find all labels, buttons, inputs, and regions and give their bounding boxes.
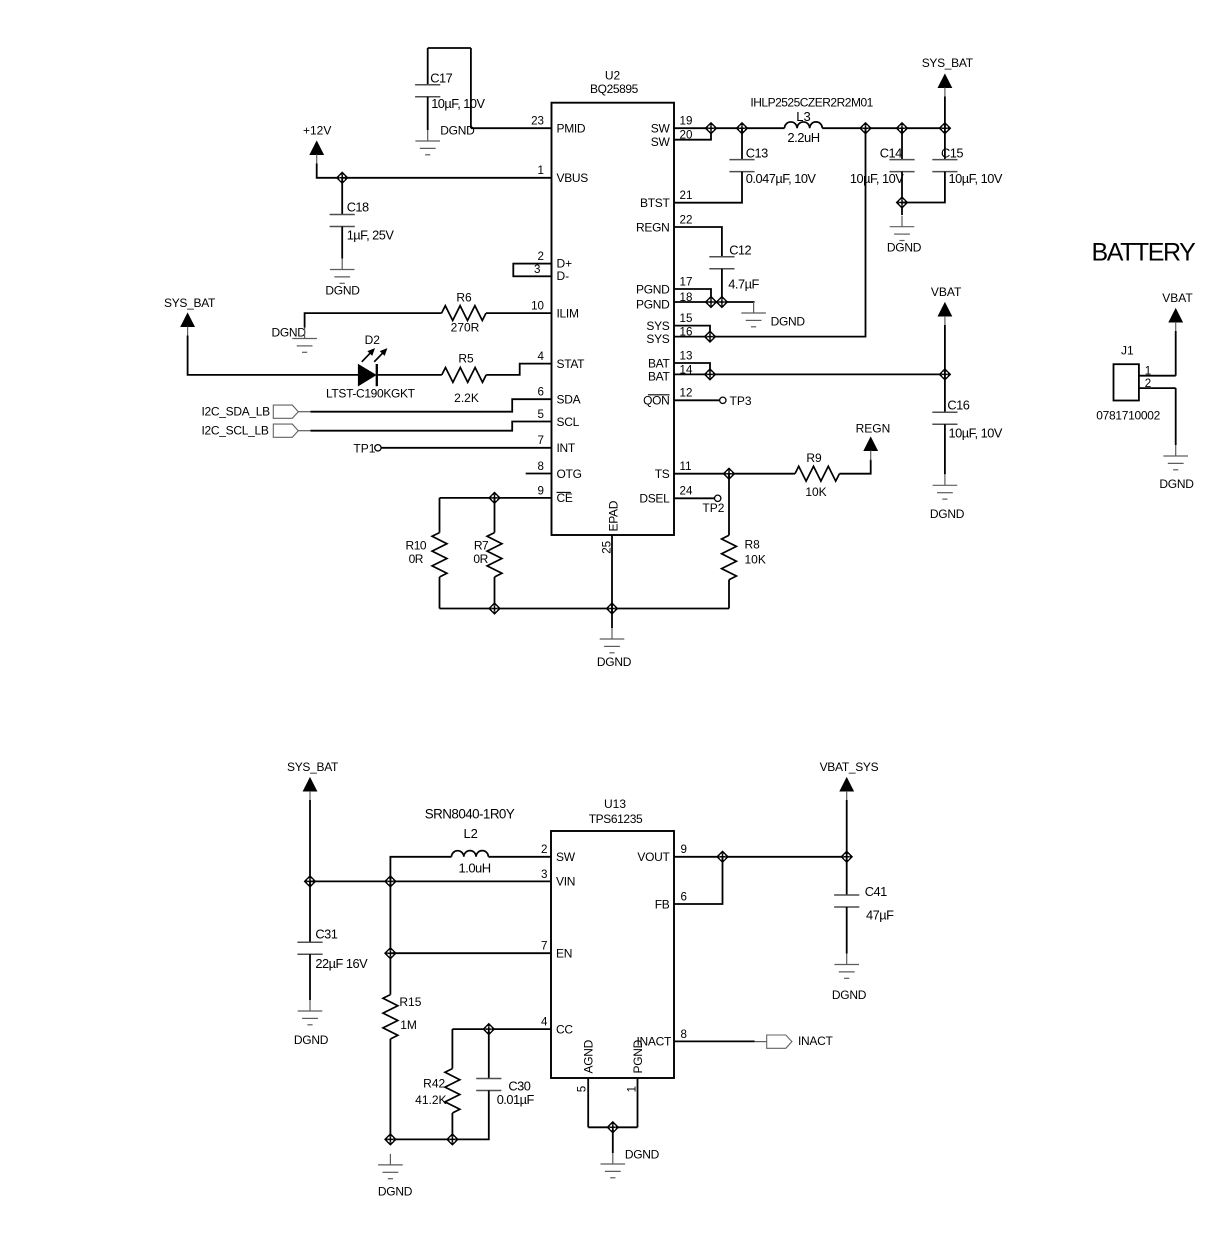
op-amp U2 charger IC body BQ25895 bbox=[552, 103, 675, 535]
svg-text:DGND: DGND bbox=[771, 315, 806, 329]
ground DGND under C18 bbox=[330, 259, 355, 284]
svg-text:23: 23 bbox=[531, 115, 544, 128]
svg-text:R6: R6 bbox=[456, 290, 472, 304]
svg-text:D-: D- bbox=[557, 269, 570, 283]
svg-text:0R: 0R bbox=[473, 552, 488, 566]
wire PMID net to pin 23 bbox=[471, 127, 552, 129]
svg-text:+12V: +12V bbox=[303, 123, 331, 137]
wire I2C_SDA_LB to SDA pin 6 bbox=[311, 399, 552, 412]
wire SW pin 20 jog bbox=[674, 128, 711, 140]
wire VOUT pin 9 net bbox=[674, 856, 847, 858]
svg-text:13: 13 bbox=[680, 349, 693, 362]
svg-text:CC: CC bbox=[556, 1022, 573, 1036]
svg-text:C30: C30 bbox=[508, 1078, 530, 1093]
svg-text:2: 2 bbox=[538, 250, 544, 263]
svg-text:1: 1 bbox=[1145, 365, 1151, 378]
svg-text:22: 22 bbox=[680, 213, 693, 226]
junction FB node bbox=[717, 851, 729, 863]
wire C13 to BTST pin 21 bbox=[674, 172, 742, 203]
ground DGND under C31 bbox=[298, 1000, 323, 1025]
svg-text:DSEL: DSEL bbox=[639, 492, 670, 506]
wire R42 bottom lead bbox=[451, 1113, 453, 1139]
ground DGND at PGND bbox=[741, 302, 766, 327]
svg-text:9: 9 bbox=[681, 843, 687, 856]
power arrow +12V bbox=[310, 142, 323, 155]
wire REGN pin 22 to C12 bbox=[674, 227, 722, 257]
svg-text:0.01µF: 0.01µF bbox=[497, 1092, 535, 1107]
svg-text:L2: L2 bbox=[463, 826, 477, 841]
junction TS node bbox=[723, 468, 735, 480]
svg-text:R42: R42 bbox=[423, 1076, 445, 1090]
svg-text:TP3: TP3 bbox=[730, 394, 752, 408]
wire C15 top lead bbox=[944, 128, 946, 159]
wire BAT pin 14 to VBAT bbox=[674, 373, 945, 375]
wire junction to DGND under U13 bbox=[612, 1127, 614, 1153]
svg-text:16: 16 bbox=[680, 326, 693, 339]
ground DGND under C14 C15 bbox=[890, 216, 915, 241]
svg-text:0781710002: 0781710002 bbox=[1096, 409, 1160, 423]
svg-text:TP1: TP1 bbox=[353, 441, 375, 455]
wire EPAD pin 25 bbox=[611, 535, 613, 609]
svg-text:C13: C13 bbox=[746, 145, 768, 160]
svg-text:6: 6 bbox=[681, 890, 687, 903]
wire J1 pin 1 bbox=[1139, 375, 1176, 377]
power arrow SYS_BAT bottom bbox=[303, 778, 316, 791]
power arrow VBAT mid bbox=[938, 303, 951, 316]
svg-text:ILIM: ILIM bbox=[557, 306, 579, 320]
svg-text:2.2K: 2.2K bbox=[454, 391, 479, 405]
junction R42 bottom node bbox=[447, 1134, 459, 1146]
svg-text:IHLP2525CZER2R2M01: IHLP2525CZER2R2M01 bbox=[750, 95, 873, 109]
svg-text:11: 11 bbox=[680, 460, 692, 473]
power arrow SYS_BAT left bbox=[181, 314, 194, 327]
net flag I2C_SDA_LB bbox=[273, 405, 298, 418]
svg-text:4: 4 bbox=[541, 1016, 548, 1029]
wire C16 to ground bbox=[944, 424, 946, 474]
wire R6 to ILIM pin 10 bbox=[486, 312, 552, 314]
svg-text:REGN: REGN bbox=[636, 220, 669, 234]
svg-text:10µF, 10V: 10µF, 10V bbox=[949, 171, 1003, 186]
wire VBUS to pin 1 bbox=[342, 177, 551, 179]
capacitor C12 bbox=[709, 257, 734, 269]
svg-text:SYS_BAT: SYS_BAT bbox=[922, 56, 974, 70]
resistor R10 bbox=[432, 533, 447, 577]
junction R7 bottom node bbox=[489, 603, 501, 615]
wire OTG pin 8 stub bbox=[526, 473, 552, 475]
svg-text:7: 7 bbox=[538, 434, 544, 447]
wire C12 bottom lead bbox=[721, 269, 723, 302]
svg-text:9: 9 bbox=[538, 484, 544, 497]
svg-text:SRN8040-1R0Y: SRN8040-1R0Y bbox=[425, 806, 515, 821]
svg-text:SDA: SDA bbox=[557, 393, 581, 407]
svg-text:22µF 16V: 22µF 16V bbox=[315, 956, 368, 971]
capacitor C18 bbox=[330, 215, 355, 227]
svg-text:25: 25 bbox=[600, 541, 613, 554]
svg-text:19: 19 bbox=[680, 115, 693, 128]
resistor R9 bbox=[795, 466, 839, 481]
junction EN node bbox=[385, 947, 397, 959]
junction SW node B bbox=[736, 122, 748, 134]
wire C14 bottom lead bbox=[901, 172, 903, 215]
wire VBAT_SYS to C41 bbox=[846, 800, 848, 895]
capacitor C17 bbox=[415, 85, 440, 97]
junction BAT pins node bbox=[704, 369, 716, 381]
junction PGND node B bbox=[716, 296, 728, 308]
svg-text:10µF, 10V: 10µF, 10V bbox=[949, 426, 1003, 441]
svg-text:DGND: DGND bbox=[887, 241, 922, 255]
svg-text:REGN: REGN bbox=[856, 421, 891, 435]
junction CE-R7 node bbox=[489, 492, 501, 504]
svg-text:10K: 10K bbox=[745, 552, 766, 566]
LED D2 emission arrow 1 bbox=[359, 346, 377, 364]
ground DGND under C16 bbox=[933, 474, 958, 499]
resistor R6 bbox=[442, 306, 486, 321]
svg-text:C17: C17 bbox=[430, 71, 452, 86]
junction VBUS node bbox=[336, 172, 348, 184]
svg-text:PGND: PGND bbox=[631, 1039, 645, 1073]
svg-text:SW: SW bbox=[651, 122, 671, 136]
junction VBAT_SYS node bbox=[841, 851, 853, 863]
wire INACT pin 8 net bbox=[674, 1040, 755, 1042]
svg-text:BATTERY: BATTERY bbox=[1092, 239, 1197, 267]
svg-text:R9: R9 bbox=[806, 451, 822, 465]
wire PGND pin 18 rail bbox=[674, 302, 754, 303]
svg-text:I2C_SCL_LB: I2C_SCL_LB bbox=[202, 423, 269, 437]
wire AGND pin 5 bbox=[587, 1078, 589, 1127]
svg-text:4.7µF: 4.7µF bbox=[728, 277, 759, 292]
svg-text:10µF, 10V: 10µF, 10V bbox=[850, 171, 904, 186]
wire I2C_SCL_LB to SCL pin 5 bbox=[311, 422, 552, 431]
wire R10 bottom lead bbox=[439, 577, 441, 609]
svg-text:VOUT: VOUT bbox=[637, 850, 670, 864]
svg-text:0.047µF, 10V: 0.047µF, 10V bbox=[746, 171, 817, 186]
svg-text:R7: R7 bbox=[474, 539, 489, 553]
svg-text:C16: C16 bbox=[947, 397, 969, 412]
svg-text:3: 3 bbox=[534, 263, 540, 276]
svg-text:VBUS: VBUS bbox=[557, 171, 589, 185]
svg-text:2.2uH: 2.2uH bbox=[787, 130, 819, 145]
svg-text:SCL: SCL bbox=[557, 415, 580, 429]
wire CE net pin 9 bbox=[440, 497, 552, 499]
capacitor C30 bbox=[476, 1079, 501, 1091]
wire QON pin 12 to TP3 bbox=[674, 399, 719, 401]
svg-text:2: 2 bbox=[541, 843, 547, 856]
svg-text:DGND: DGND bbox=[832, 988, 867, 1002]
svg-text:2: 2 bbox=[1145, 377, 1151, 390]
svg-text:1: 1 bbox=[538, 164, 544, 177]
LED D2 LTST-C190KGKT bbox=[358, 364, 377, 387]
svg-text:TPS61235: TPS61235 bbox=[589, 812, 643, 826]
junction VBAT node bbox=[939, 369, 951, 381]
wire R42 top lead bbox=[451, 1029, 453, 1069]
svg-text:3: 3 bbox=[541, 868, 547, 881]
svg-text:INACT: INACT bbox=[798, 1034, 833, 1048]
wire R7 bottom lead bbox=[494, 577, 496, 609]
junction C14 C15 ground node bbox=[896, 197, 908, 209]
svg-text:SYS: SYS bbox=[646, 319, 669, 333]
power arrow VBAT at J1 bbox=[1169, 309, 1182, 322]
net flag I2C_SCL_LB bbox=[273, 424, 298, 437]
svg-text:14: 14 bbox=[680, 363, 693, 376]
testpoint TP2 circle bbox=[715, 495, 721, 501]
svg-text:7: 7 bbox=[541, 940, 547, 953]
wire SYS pin 16 to L3 output bbox=[674, 128, 866, 336]
wire R8 top lead bbox=[728, 474, 730, 536]
svg-text:BAT: BAT bbox=[648, 370, 671, 384]
wire AGND-PGND rail bbox=[588, 1126, 637, 1128]
wire TS pin 11 to R9 bbox=[674, 473, 795, 475]
capacitor C15 bbox=[932, 160, 957, 172]
svg-text:J1: J1 bbox=[1121, 344, 1134, 358]
svg-text:SW: SW bbox=[556, 850, 576, 864]
wire ground rail below U2 bbox=[440, 608, 730, 610]
wire PGND pin 17 jog bbox=[674, 289, 711, 302]
svg-text:8: 8 bbox=[538, 460, 544, 473]
capacitor C31 bbox=[297, 942, 322, 954]
svg-text:DGND: DGND bbox=[378, 1184, 413, 1198]
junction AGND PGND node bbox=[607, 1122, 619, 1134]
junction CC node bbox=[483, 1023, 495, 1035]
testpoint TP3 circle bbox=[720, 397, 726, 403]
wire EN net to pin 7 bbox=[390, 952, 551, 954]
power arrow VBAT_SYS bbox=[840, 778, 853, 791]
wire EPAD junction to ground bbox=[611, 609, 613, 629]
wire J1 pin 2 bbox=[1139, 387, 1176, 389]
junction SYS pins node bbox=[704, 331, 716, 343]
svg-text:SYS: SYS bbox=[646, 332, 669, 346]
svg-text:R8: R8 bbox=[745, 538, 761, 552]
inductor L3 bbox=[785, 122, 823, 128]
wire C30 bottom to ground rail bbox=[390, 1091, 488, 1140]
svg-text:OTG: OTG bbox=[557, 467, 582, 481]
wire thin lead to INACT flag bbox=[755, 1041, 767, 1043]
testpoint TP1 circle bbox=[375, 445, 381, 451]
resistor R42 bbox=[445, 1069, 460, 1113]
svg-text:C41: C41 bbox=[865, 884, 887, 899]
resistor R8 bbox=[722, 535, 737, 579]
svg-text:EPAD: EPAD bbox=[607, 500, 621, 531]
wire CC pin 4 net bbox=[452, 1028, 551, 1030]
wire C17 left leg lower bbox=[427, 97, 429, 130]
junction SYS_BAT node right bbox=[939, 122, 951, 134]
svg-text:10K: 10K bbox=[805, 485, 826, 499]
svg-text:FB: FB bbox=[655, 897, 670, 911]
svg-text:DGND: DGND bbox=[625, 1147, 660, 1161]
svg-text:17: 17 bbox=[680, 275, 693, 288]
resistor R15 bbox=[383, 995, 398, 1039]
wire junction to C18 bbox=[341, 178, 343, 215]
wire C15 bottom to C14 node bbox=[902, 172, 945, 203]
wire J1 pin 2 to ground bbox=[1175, 388, 1177, 445]
junction C14 node bbox=[896, 122, 908, 134]
wire C30 top lead bbox=[488, 1029, 490, 1078]
svg-text:5: 5 bbox=[538, 408, 544, 421]
connector J1 body bbox=[1114, 364, 1139, 400]
wire VIN node down to R15 bbox=[389, 881, 391, 994]
node D+ D- shorting box bbox=[513, 264, 551, 277]
svg-text:SYS_BAT: SYS_BAT bbox=[164, 296, 216, 310]
svg-text:PMID: PMID bbox=[557, 122, 586, 136]
wire VIN node up to L2 bbox=[390, 857, 451, 882]
wire BAT pin 13 jog bbox=[674, 363, 710, 374]
svg-text:VBAT: VBAT bbox=[1162, 291, 1193, 305]
op-amp U13 boost IC body TPS61235 bbox=[551, 831, 674, 1078]
svg-text:1: 1 bbox=[625, 1086, 638, 1092]
wire SYS_BAT down to VIN net bbox=[309, 800, 311, 881]
svg-text:DGND: DGND bbox=[272, 325, 307, 339]
svg-text:BQ25895: BQ25895 bbox=[590, 82, 639, 96]
wire L2 to SW pin 2 bbox=[488, 856, 551, 858]
capacitor C13 bbox=[729, 160, 754, 172]
svg-text:STAT: STAT bbox=[557, 357, 586, 371]
svg-text:VIN: VIN bbox=[556, 875, 575, 889]
svg-text:5: 5 bbox=[576, 1086, 589, 1092]
svg-text:21: 21 bbox=[680, 189, 693, 202]
svg-text:SYS_BAT: SYS_BAT bbox=[287, 760, 339, 774]
svg-text:C18: C18 bbox=[347, 199, 369, 214]
capacitor C14 bbox=[889, 160, 914, 172]
svg-text:DGND: DGND bbox=[440, 124, 475, 138]
svg-text:18: 18 bbox=[680, 291, 693, 304]
svg-text:R5: R5 bbox=[458, 352, 474, 366]
inductor L2 bbox=[452, 851, 489, 857]
svg-text:EN: EN bbox=[556, 947, 572, 961]
svg-text:C31: C31 bbox=[315, 927, 337, 942]
wire TP1 to INT pin 7 bbox=[381, 447, 552, 449]
svg-text:QON: QON bbox=[643, 394, 669, 408]
svg-text:DGND: DGND bbox=[325, 284, 360, 298]
svg-text:4: 4 bbox=[538, 350, 545, 363]
svg-text:DGND: DGND bbox=[930, 507, 965, 521]
wire VBAT to C16 bbox=[944, 325, 946, 412]
svg-text:6: 6 bbox=[538, 386, 544, 399]
svg-text:10µF, 10V: 10µF, 10V bbox=[431, 96, 485, 111]
wire SYS_BAT to LED D2 anode bbox=[188, 336, 358, 375]
power arrow REGN bbox=[864, 438, 877, 451]
junction SW node A bbox=[705, 122, 717, 134]
wire C17 top loop bbox=[428, 47, 471, 49]
wire DSEL pin 24 to TP2 bbox=[674, 497, 715, 499]
svg-text:BAT: BAT bbox=[648, 356, 671, 370]
wire FB pin 6 jog bbox=[674, 857, 723, 904]
svg-text:47µF: 47µF bbox=[866, 908, 894, 923]
svg-text:DGND: DGND bbox=[294, 1033, 329, 1047]
wire C31 top lead bbox=[309, 881, 311, 942]
wire C17 left leg upper bbox=[427, 48, 429, 85]
junction ground rail node bbox=[385, 1134, 397, 1146]
ground DGND bottom left bbox=[378, 1154, 403, 1179]
svg-text:41.2K: 41.2K bbox=[415, 1093, 446, 1107]
wire SW net right segment bbox=[822, 127, 945, 129]
ground DGND under C41 bbox=[834, 954, 859, 979]
wire VBAT arrow to J1 pin 1 bbox=[1175, 331, 1177, 376]
wire PGND pin 1 bbox=[637, 1078, 639, 1127]
junction PGND node A bbox=[705, 296, 717, 308]
svg-text:10: 10 bbox=[531, 300, 544, 313]
svg-text:1.0uH: 1.0uH bbox=[458, 861, 490, 876]
resistor R5 bbox=[442, 368, 486, 383]
wire R10 top lead bbox=[439, 498, 441, 533]
svg-text:D2: D2 bbox=[365, 333, 381, 347]
wire SYS_BAT arrow to SW net bbox=[944, 97, 946, 129]
svg-text:SW: SW bbox=[651, 135, 671, 149]
svg-text:24: 24 bbox=[680, 485, 693, 498]
svg-text:D+: D+ bbox=[557, 256, 573, 270]
wire C13 top lead bbox=[741, 128, 743, 159]
capacitor C41 bbox=[834, 895, 859, 907]
svg-text:VBAT_SYS: VBAT_SYS bbox=[820, 760, 879, 774]
wire R8 bottom lead bbox=[728, 580, 730, 609]
svg-text:TP2: TP2 bbox=[702, 501, 724, 515]
wire R5 to STAT pin 4 bbox=[486, 364, 551, 375]
wire R15 bottom lead bbox=[389, 1039, 391, 1139]
capacitor C16 bbox=[932, 412, 957, 424]
svg-text:I2C_SDA_LB: I2C_SDA_LB bbox=[202, 404, 271, 418]
svg-text:C15: C15 bbox=[941, 145, 963, 160]
power arrow SYS_BAT right bbox=[938, 75, 951, 88]
svg-text:AGND: AGND bbox=[581, 1039, 595, 1073]
junction EPAD ground node bbox=[606, 603, 618, 615]
wire SW net left segment bbox=[674, 127, 785, 129]
svg-text:LTST-C190KGKT: LTST-C190KGKT bbox=[326, 387, 416, 401]
wire R9 to REGN arrow bbox=[839, 460, 870, 474]
LED D2 emission arrow 2 bbox=[372, 346, 390, 364]
wire C18 to ground bbox=[341, 227, 343, 259]
svg-text:DGND: DGND bbox=[597, 655, 632, 669]
wire C14 top lead bbox=[901, 128, 903, 159]
ground DGND at R6 left bbox=[292, 328, 317, 353]
wire C31 to ground bbox=[309, 954, 311, 1000]
ground DGND under U13 bbox=[601, 1153, 626, 1178]
wire C17 right leg bbox=[470, 48, 472, 128]
svg-text:R10: R10 bbox=[406, 539, 427, 553]
resistor R7 bbox=[487, 533, 502, 577]
ground DGND under C17 bbox=[415, 130, 440, 155]
ground DGND under J1 bbox=[1163, 445, 1188, 470]
svg-text:PGND: PGND bbox=[636, 282, 670, 296]
svg-text:0R: 0R bbox=[409, 552, 424, 566]
wire C41 to ground bbox=[846, 907, 848, 954]
svg-text:20: 20 bbox=[680, 129, 693, 142]
wire SYS pin 15 jog bbox=[674, 326, 710, 337]
wire R7 top lead bbox=[494, 498, 496, 533]
junction C31 node bbox=[304, 876, 316, 888]
svg-text:CE: CE bbox=[557, 491, 573, 505]
svg-text:DGND: DGND bbox=[1159, 477, 1194, 491]
svg-text:R15: R15 bbox=[399, 995, 421, 1009]
svg-text:12: 12 bbox=[680, 387, 693, 400]
svg-text:U2: U2 bbox=[605, 69, 621, 83]
svg-text:PGND: PGND bbox=[636, 297, 670, 311]
wire +12V down to VBUS net bbox=[317, 164, 343, 178]
svg-text:U13: U13 bbox=[604, 797, 626, 811]
svg-text:BTST: BTST bbox=[640, 196, 670, 210]
svg-text:1M: 1M bbox=[400, 1018, 417, 1032]
ground DGND below EPAD bbox=[600, 628, 625, 653]
junction SYS node after L3 bbox=[860, 122, 872, 134]
svg-text:15: 15 bbox=[680, 312, 693, 325]
net flag INACT bbox=[767, 1035, 792, 1048]
junction VIN-R15 node bbox=[385, 876, 397, 888]
svg-text:VBAT: VBAT bbox=[931, 285, 962, 299]
svg-text:C12: C12 bbox=[729, 243, 751, 258]
svg-text:8: 8 bbox=[681, 1028, 687, 1041]
svg-text:1µF, 25V: 1µF, 25V bbox=[347, 227, 395, 242]
wire DGND to R6 bbox=[305, 313, 442, 327]
svg-text:INT: INT bbox=[557, 441, 576, 455]
wire D2 cathode to R5 bbox=[377, 374, 442, 376]
svg-text:C14: C14 bbox=[880, 145, 902, 160]
